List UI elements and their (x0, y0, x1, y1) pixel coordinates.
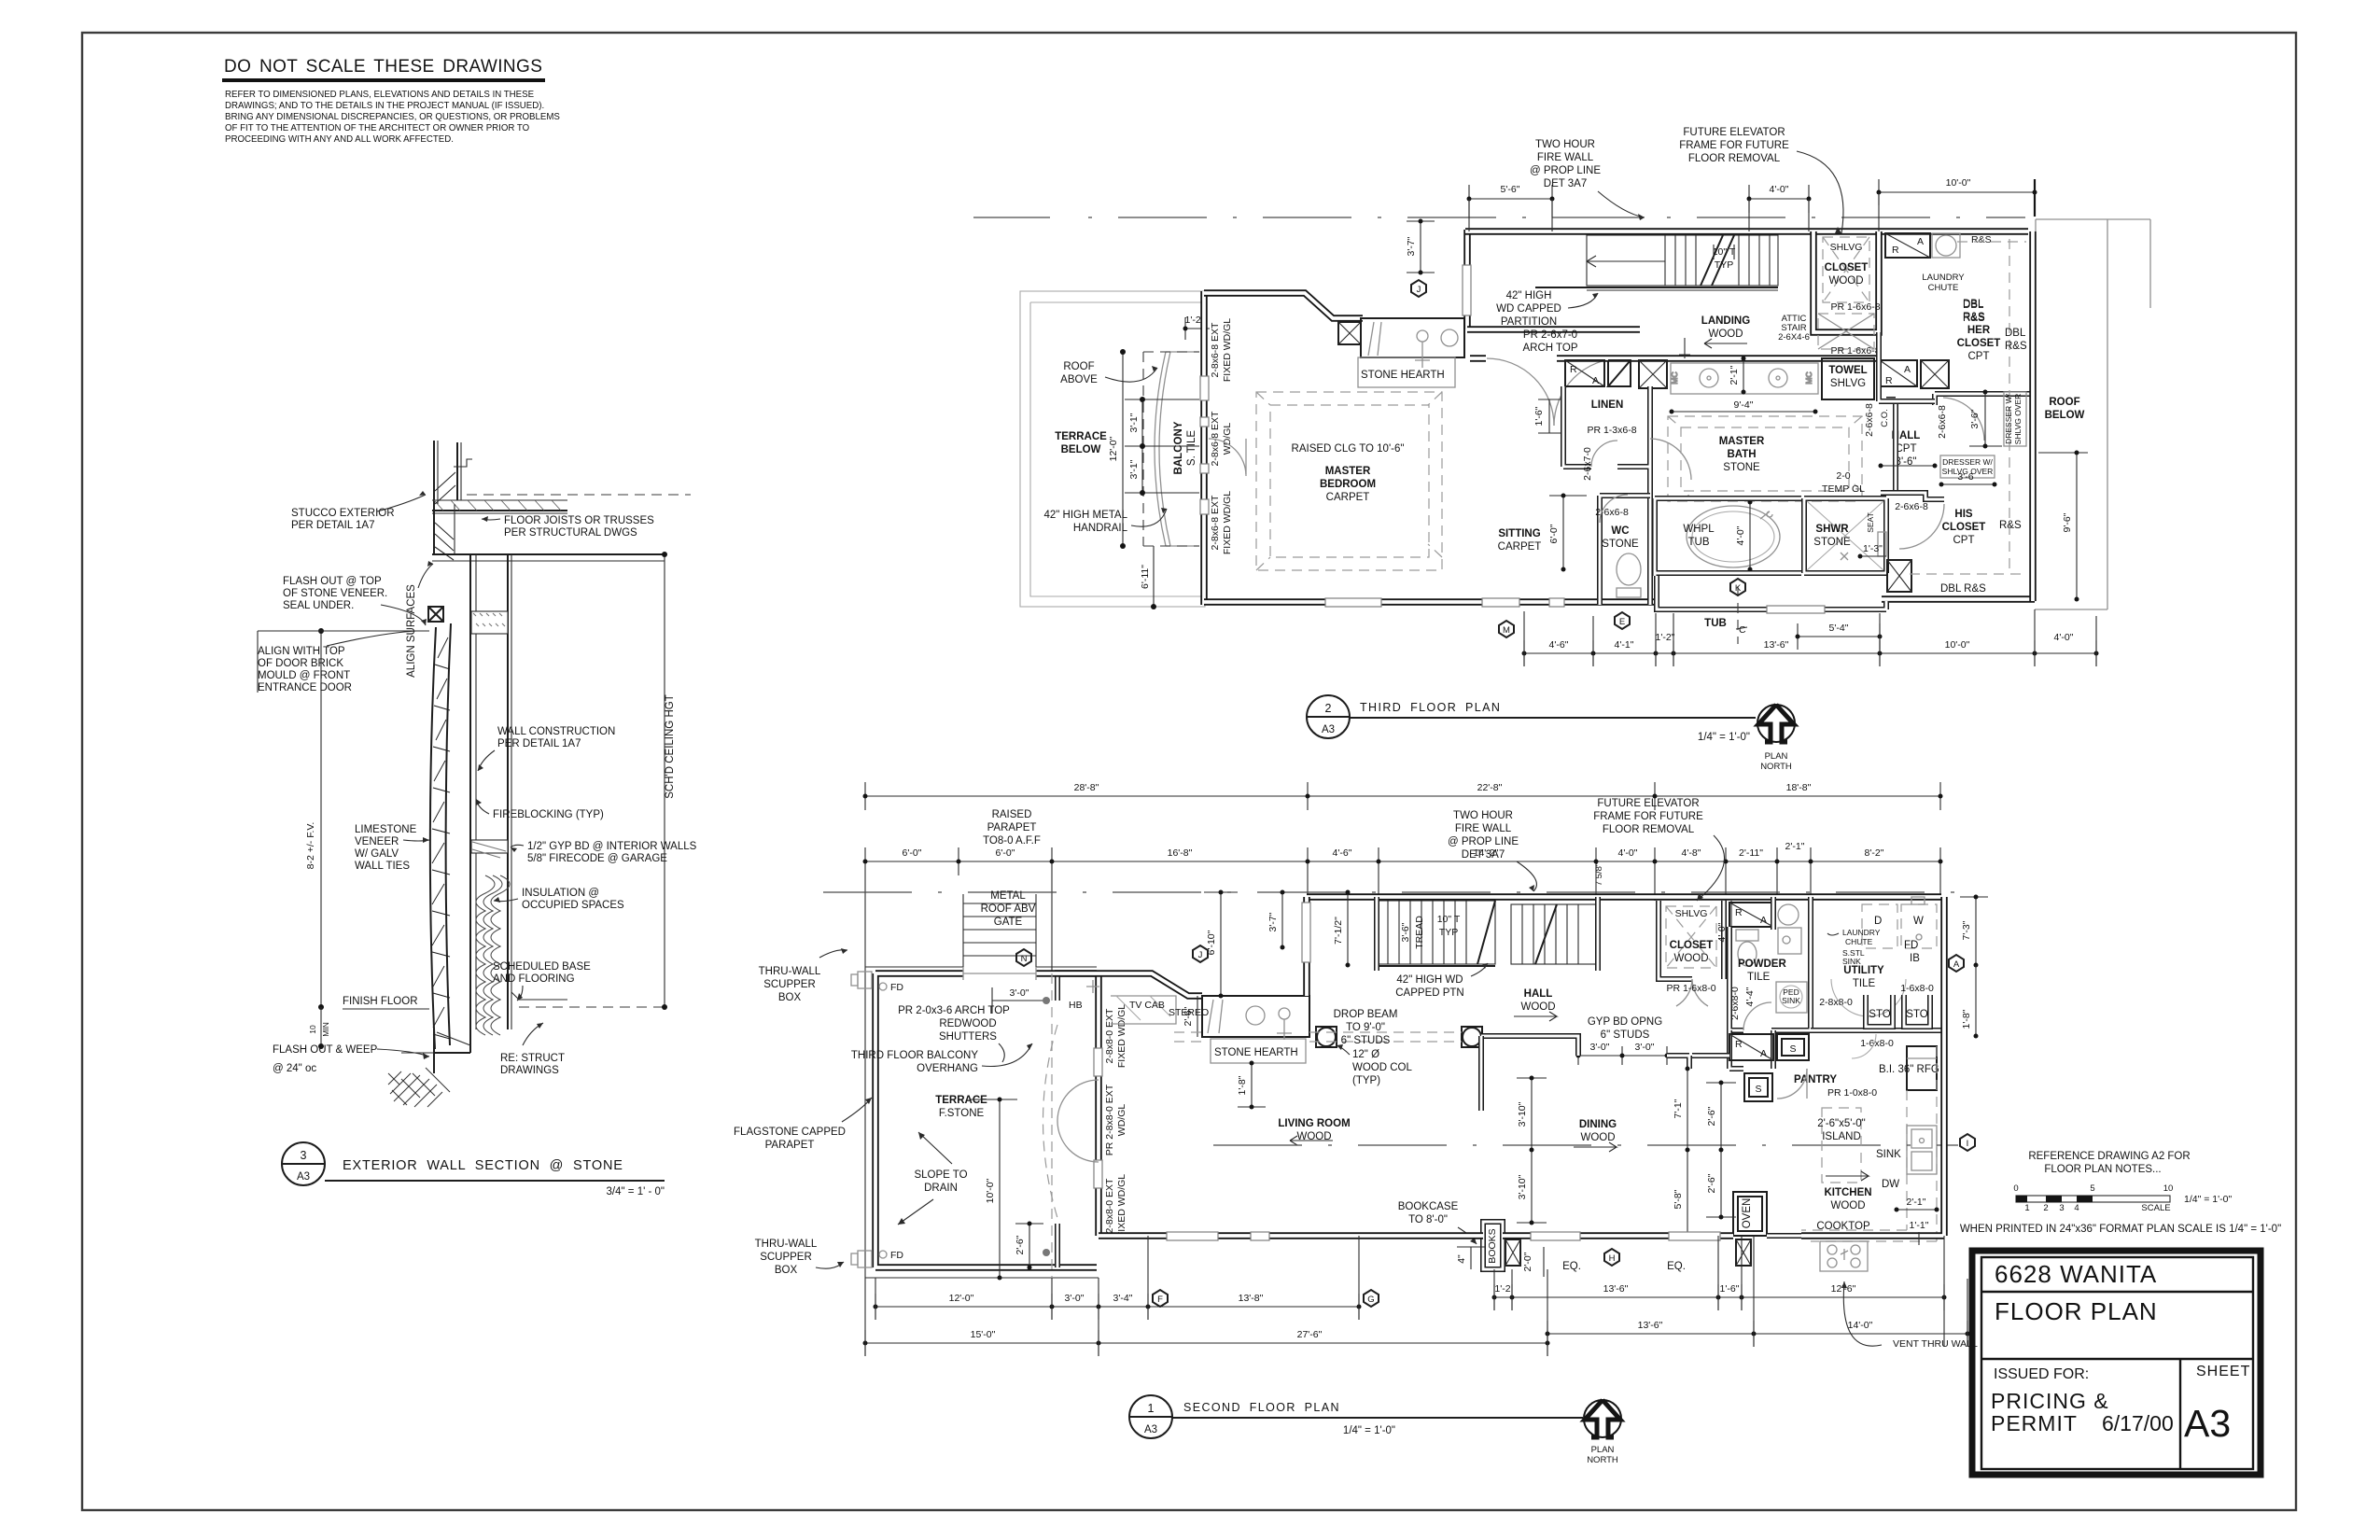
svg-text:1'-6": 1'-6" (1720, 1283, 1740, 1295)
label: terrace below (1055, 431, 1107, 455)
svg-text:SINK: SINK (1876, 1149, 1901, 1160)
section label: gyp bd (511, 841, 697, 864)
svg-text:@ PROP LINE: @ PROP LINE (1448, 836, 1519, 847)
label: landing wood (1701, 315, 1750, 348)
svg-text:J: J (1417, 285, 1421, 295)
svg-text:LIMESTONE: LIMESTONE (355, 824, 417, 835)
svg-text:BRING ANY DIMENSIONAL DISCREPA: BRING ANY DIMENSIONAL DISCREPANCIES, OR … (225, 112, 560, 122)
her closet labels (1957, 300, 2027, 362)
HB and cross symbols (1069, 980, 1099, 1011)
svg-text:18'-8": 18'-8" (1786, 782, 1812, 793)
svg-text:3'-1": 3'-1" (1128, 459, 1140, 479)
svg-text:WOOD: WOOD (1580, 1132, 1615, 1143)
svg-text:1'-3": 1'-3" (1863, 543, 1883, 554)
svg-text:DBL R&S: DBL R&S (1940, 583, 1986, 595)
svg-text:FLOOR REMOVAL: FLOOR REMOVAL (1688, 153, 1781, 164)
svg-text:22'-8": 22'-8" (1477, 782, 1503, 793)
svg-text:LAUNDRY: LAUNDRY (1842, 928, 1881, 937)
9'-6" dim roof (2038, 451, 2088, 602)
svg-text:3'-7": 3'-7" (1267, 912, 1279, 931)
island dashed (1817, 1108, 1866, 1183)
svg-text:10: 10 (2163, 1183, 2174, 1194)
chase x right (1921, 360, 1949, 388)
svg-text:10'-0": 10'-0" (1946, 177, 1971, 189)
svg-text:R: R (1885, 375, 1893, 386)
svg-text:6/17/00: 6/17/00 (2102, 1411, 2174, 1435)
section: bottom of wall / flash out (401, 1029, 470, 1073)
svg-text:8'-2": 8'-2" (1865, 847, 1884, 859)
svg-text:EQ.: EQ. (1667, 1261, 1686, 1272)
2'-1" dim at vanity (1729, 357, 1746, 395)
master bedroom north wall with diagonal (1204, 293, 1363, 318)
svg-text:FLASH OUT & WEEP: FLASH OUT & WEEP (273, 1044, 378, 1056)
grid marker A (1949, 955, 1964, 972)
svg-text:PR 1-6x6-8: PR 1-6x6-8 (1830, 301, 1880, 313)
svg-text:MASTER: MASTER (1719, 436, 1765, 447)
svg-text:PER DETAIL 1A7: PER DETAIL 1A7 (291, 520, 374, 531)
label: thru-wall scupper box (bottom) (755, 1239, 844, 1276)
section label: scheduled base (493, 961, 591, 1001)
kitchen sink + dw (1876, 1126, 1937, 1190)
svg-text:1'-2": 1'-2" (1656, 632, 1675, 643)
svg-text:A: A (1904, 364, 1911, 375)
svg-text:MOULD @ FRONT: MOULD @ FRONT (258, 670, 350, 681)
label: future elevator (1679, 127, 1843, 233)
svg-text:STONE: STONE (1813, 537, 1851, 548)
6'-11" vertical dim (1140, 546, 1156, 609)
svg-text:2'-0": 2'-0" (1522, 1252, 1533, 1271)
label: 12" wood col (1337, 1044, 1412, 1086)
top dim row 2 (863, 841, 1943, 886)
svg-text:KITCHEN: KITCHEN (1824, 1187, 1871, 1198)
svg-text:FIXED WD/GL: FIXED WD/GL (1116, 1004, 1127, 1068)
section: ground hatch (388, 1068, 450, 1107)
svg-text:SCHEDULED BASE: SCHEDULED BASE (493, 961, 591, 973)
3'-0" gate dim (992, 987, 1050, 1014)
svg-text:3'-4": 3'-4" (1113, 1293, 1133, 1304)
svg-text:PLAN: PLAN (1765, 751, 1788, 762)
bedroom south wall (1204, 598, 1659, 607)
svg-text:TERRACE: TERRACE (935, 1095, 987, 1106)
svg-text:STONE: STONE (1602, 539, 1639, 550)
svg-text:TO8-0 A.F.F: TO8-0 A.F.F (983, 835, 1041, 847)
master bedroom west wall with windows (1200, 291, 1209, 605)
svg-text:WOOD COL: WOOD COL (1352, 1062, 1412, 1073)
svg-text:THRU-WALL: THRU-WALL (755, 1239, 818, 1250)
section label: stucco exterior (291, 491, 426, 531)
svg-text:SCH'D CEILING HGT: SCH'D CEILING HGT (665, 694, 676, 798)
east exterior wall of closets (2029, 231, 2037, 601)
svg-text:S: S (1789, 1043, 1796, 1055)
interior dims dining (1517, 1067, 1736, 1239)
svg-text:THIRD FLOOR BALCONY: THIRD FLOOR BALCONY (851, 1050, 978, 1061)
svg-text:MASTER: MASTER (1325, 466, 1371, 477)
fireplace assembly (1338, 318, 1464, 368)
section: firestop blocks (471, 611, 508, 858)
svg-text:DROP BEAM: DROP BEAM (1334, 1009, 1398, 1020)
svg-text:BALCONY: BALCONY (1173, 421, 1184, 474)
svg-text:PER STRUCTURAL DWGS: PER STRUCTURAL DWGS (504, 527, 637, 539)
svg-text:MIN: MIN (321, 1022, 330, 1037)
house top wall west portion (1055, 973, 1202, 996)
svg-text:DBL: DBL (1963, 300, 1984, 311)
svg-text:2: 2 (1325, 702, 1332, 715)
svg-text:2-8x6-8 EXT: 2-8x6-8 EXT (1210, 495, 1221, 551)
svg-text:CLOSET: CLOSET (1825, 262, 1869, 273)
raised parapet label (983, 809, 1041, 847)
svg-text:CPT: CPT (1953, 535, 1975, 546)
vent thru wall (1841, 1281, 1978, 1350)
his closet bottom wall (1882, 595, 2035, 603)
svg-text:FD: FD (890, 1250, 903, 1261)
4'-0" dim at closet (1716, 901, 1731, 964)
svg-text:2-8x6-8 EXT: 2-8x6-8 EXT (1210, 322, 1221, 378)
svg-text:14'-0": 14'-0" (1848, 1320, 1873, 1331)
svg-text:3'-10": 3'-10" (1517, 1101, 1528, 1127)
svg-text:4'-1": 4'-1" (1615, 639, 1634, 651)
svg-text:7'-3": 7'-3" (1961, 920, 1972, 940)
svg-text:FRAME FOR FUTURE: FRAME FOR FUTURE (1679, 140, 1789, 151)
svg-text:AND FLOORING: AND FLOORING (493, 973, 575, 985)
svg-text:(TYP): (TYP) (1352, 1075, 1380, 1086)
wall between bath and hall (1886, 399, 1896, 496)
svg-text:W/ GALV: W/ GALV (355, 848, 399, 860)
property dashed line second floor (823, 891, 1979, 893)
svg-text:3'-0": 3'-0" (1010, 987, 1029, 999)
section label: insulation (494, 888, 624, 911)
svg-text:MC: MC (1670, 371, 1679, 384)
svg-text:1'-8": 1'-8" (1237, 1075, 1248, 1095)
svg-text:SEAL UNDER.: SEAL UNDER. (283, 600, 354, 611)
label: roof below (2045, 397, 2085, 421)
svg-text:SCUPPER: SCUPPER (763, 979, 816, 990)
svg-text:13'-6": 13'-6" (1603, 1283, 1629, 1295)
svg-text:R: R (1735, 907, 1743, 918)
svg-text:BOOKS: BOOKS (1487, 1228, 1498, 1263)
svg-text:4'-0": 4'-0" (1618, 847, 1638, 859)
svg-text:FLOOR PLAN NOTES...: FLOOR PLAN NOTES... (2044, 1164, 2161, 1175)
section: base/flooring step (511, 992, 567, 1000)
svg-text:PR 2-0x3-6 ARCH TOP: PR 2-0x3-6 ARCH TOP (898, 1005, 1010, 1016)
svg-text:2'-11": 2'-11" (1739, 847, 1763, 859)
svg-text:FIRE WALL: FIRE WALL (1455, 823, 1512, 834)
svg-text:I: I (1967, 1139, 1969, 1149)
hall width dim 3'-6" (1879, 464, 1938, 469)
svg-text:1/4" = 1'-0": 1/4" = 1'-0" (1698, 732, 1750, 743)
svg-text:TV CAB: TV CAB (1129, 1000, 1165, 1011)
svg-text:12" Ø: 12" Ø (1352, 1049, 1379, 1060)
label: pr 2-6x7-0 arch top (1522, 329, 1577, 354)
svg-text:OCCUPIED SPACES: OCCUPIED SPACES (522, 900, 624, 911)
svg-text:9'-6": 9'-6" (2062, 512, 2073, 532)
svg-text:15'-0": 15'-0" (971, 1329, 996, 1340)
svg-text:BOX: BOX (775, 1265, 798, 1276)
svg-text:DINING: DINING (1579, 1119, 1617, 1130)
label: two hour fire wall (2nd floor) (1448, 810, 1536, 891)
svg-text:WHPL: WHPL (1683, 524, 1715, 535)
svg-text:FIXED WD/GL: FIXED WD/GL (1116, 1174, 1127, 1238)
svg-text:2-6x6-8: 2-6x6-8 (1937, 405, 1948, 439)
svg-text:TYP: TYP (1439, 927, 1458, 938)
svg-text:ENTRANCE DOOR: ENTRANCE DOOR (258, 682, 352, 693)
second floor title (1129, 1395, 1583, 1438)
note title: DO NOT SCALE THESE DRAWINGS (222, 57, 545, 80)
svg-text:REFERENCE DRAWING A2 FOR: REFERENCE DRAWING A2 FOR (2028, 1151, 2190, 1162)
svg-text:CHUTE: CHUTE (1928, 283, 1959, 293)
vanity counter with two lavs (1670, 363, 1818, 394)
svg-text:FIXED WD/GL: FIXED WD/GL (1222, 318, 1233, 382)
svg-text:TWO HOUR: TWO HOUR (1453, 810, 1513, 821)
bottom dim row A: 5'-4" (1796, 623, 1883, 650)
svg-text:RE: STRUCT: RE: STRUCT (500, 1053, 565, 1064)
section label: re: struct drawings (500, 1023, 565, 1076)
svg-text:2'-6": 2'-6" (1183, 1006, 1194, 1026)
svg-text:R: R (1892, 245, 1899, 256)
terrace 12'-0" vertical dim (1108, 349, 1126, 549)
svg-text:WOOD: WOOD (1830, 1200, 1865, 1211)
his closet labels (1895, 501, 2022, 595)
svg-text:42" HIGH: 42" HIGH (1506, 290, 1552, 301)
kitchen counters dashed (1801, 1046, 1937, 1241)
svg-text:TILE: TILE (1853, 978, 1876, 989)
9'-4" dim (1670, 399, 1818, 414)
svg-text:G: G (1367, 1295, 1374, 1305)
svg-text:8-2 +/- F.V.: 8-2 +/- F.V. (305, 822, 316, 870)
property line dash-dot across top (973, 217, 2025, 218)
svg-text:4'-0": 4'-0" (2054, 632, 2074, 643)
svg-text:SLOPE TO: SLOPE TO (914, 1169, 967, 1181)
svg-text:2: 2 (2043, 1203, 2048, 1213)
note paragraph (225, 90, 560, 145)
utility room (1819, 965, 1906, 1016)
svg-text:6'-0": 6'-0" (903, 847, 922, 859)
svg-text:9'-4": 9'-4" (1734, 399, 1754, 411)
dresser w/ shlvg over boxes (1939, 392, 2027, 487)
svg-text:OVEN: OVEN (1742, 1198, 1753, 1229)
svg-text:PARAPET: PARAPET (765, 1140, 815, 1151)
1'-3" shwr dim (1858, 543, 1887, 559)
stairs second floor run2 (1511, 904, 1598, 964)
svg-text:7'-1/2": 7'-1/2" (1333, 917, 1344, 945)
svg-text:BOOKCASE: BOOKCASE (1398, 1201, 1459, 1212)
svg-text:3'-10": 3'-10" (1517, 1174, 1528, 1199)
svg-text:W: W (1913, 916, 1924, 927)
svg-text:BEDROOM: BEDROOM (1320, 479, 1376, 490)
svg-text:PR 1-0x8-0: PR 1-0x8-0 (1827, 1087, 1877, 1099)
3'-6 dim her closet door (1969, 390, 2002, 449)
svg-text:WALL TIES: WALL TIES (355, 861, 410, 872)
1'-6" dim left of linen (1533, 399, 1561, 433)
10" T TYP stair note (1713, 245, 1736, 271)
svg-text:6628 WANITA: 6628 WANITA (1995, 1260, 2157, 1288)
label: arch top redwood shutters (898, 1005, 1010, 1062)
svg-text:WD CAPPED: WD CAPPED (1496, 303, 1561, 315)
fireplace second floor (1202, 996, 1309, 1040)
svg-text:TUB: TUB (1704, 618, 1727, 629)
svg-text:1-6x8-0: 1-6x8-0 (1860, 1038, 1894, 1049)
svg-text:STO: STO (1906, 1009, 1927, 1020)
svg-text:2-6x6-8: 2-6x6-8 (1895, 501, 1928, 512)
chase box at his closet (1887, 560, 1911, 592)
elevator closet walls (1813, 231, 1879, 332)
svg-text:GYP BD OPNG: GYP BD OPNG (1588, 1016, 1662, 1028)
label: roof above (1060, 361, 1157, 385)
label: flagstone capped parapet (734, 1098, 872, 1151)
attic stair dashed (1778, 314, 1874, 349)
svg-text:SEAT: SEAT (1866, 512, 1875, 533)
grid marker N (1016, 949, 1031, 966)
svg-text:A: A (1917, 236, 1924, 247)
svg-text:CPT: CPT (1968, 351, 1990, 362)
svg-text:CARPET: CARPET (1498, 541, 1542, 553)
2'-0" and EQ labels bottom (1522, 1247, 1686, 1277)
svg-text:5'-4": 5'-4" (1829, 623, 1849, 634)
svg-text:DRAWINGS: DRAWINGS (500, 1065, 559, 1076)
label: hall wood (1514, 988, 1557, 1021)
svg-text:PR 1-6x6-8: PR 1-6x6-8 (1830, 345, 1880, 357)
top dim 4'-0" (1747, 184, 1812, 213)
top right dim 10'-0" (1877, 177, 2037, 217)
dining room label (1574, 1119, 1617, 1152)
svg-text:3'-6": 3'-6" (1400, 922, 1411, 942)
svg-text:WD/GL: WD/GL (1116, 1104, 1127, 1137)
svg-text:LANDING: LANDING (1701, 315, 1750, 327)
svg-text:TYP: TYP (1715, 259, 1733, 271)
2'-1" 1'-1" kitchen dims (1895, 1197, 1939, 1245)
svg-text:OVERHANG: OVERHANG (917, 1063, 978, 1074)
svg-text:CHUTE: CHUTE (1845, 937, 1873, 946)
section label: wall construction (478, 726, 615, 771)
svg-text:A3: A3 (1144, 1424, 1157, 1435)
svg-text:A3: A3 (1322, 724, 1335, 735)
bedroom tray ceiling dashed rectangles (1256, 392, 1442, 570)
svg-text:A: A (1760, 1048, 1767, 1059)
svg-text:A: A (1592, 375, 1599, 386)
laundry chute circle (1932, 233, 1992, 258)
svg-text:S: S (1755, 1084, 1761, 1095)
svg-text:4'-0": 4'-0" (1716, 922, 1728, 942)
svg-text:TO 8'-0": TO 8'-0" (1408, 1214, 1448, 1225)
grid marker J (1411, 280, 1426, 297)
pantry area (1729, 1030, 1877, 1101)
svg-text:0: 0 (2013, 1183, 2018, 1194)
svg-text:J: J (1198, 950, 1203, 960)
svg-text:D: D (1874, 916, 1882, 927)
svg-text:4: 4 (2074, 1203, 2079, 1213)
svg-text:CARPET: CARPET (1326, 492, 1370, 503)
svg-text:3: 3 (2059, 1203, 2064, 1213)
svg-text:DET 3A7: DET 3A7 (1462, 849, 1505, 861)
svg-text:HER: HER (1967, 325, 1991, 336)
svg-text:BATH: BATH (1727, 449, 1756, 460)
third floor title (1307, 695, 1756, 743)
top dims: 5'-6" and 3'-7" (1467, 184, 1555, 217)
balcony curve and floor (1155, 352, 1199, 546)
svg-text:STONE HEARTH: STONE HEARTH (1214, 1047, 1298, 1058)
svg-text:5'-8": 5'-8" (1673, 1189, 1684, 1209)
svg-text:FUTURE ELEVATOR: FUTURE ELEVATOR (1597, 798, 1699, 809)
svg-text:GATE: GATE (994, 917, 1023, 928)
second floor north arrow (1584, 1400, 1621, 1465)
svg-text:FLOOR JOISTS OR TRUSSES: FLOOR JOISTS OR TRUSSES (504, 515, 654, 526)
svg-text:WALL CONSTRUCTION: WALL CONSTRUCTION (497, 726, 615, 737)
svg-text:13'-6": 13'-6" (1638, 1320, 1663, 1331)
section label: floor joists (482, 515, 654, 539)
svg-text:2-6X4-6: 2-6X4-6 (1778, 332, 1810, 343)
elevator closet 2nd floor (1659, 901, 1724, 1006)
stair labels run1 (1400, 914, 1461, 949)
svg-text:PRICING &: PRICING & (1991, 1389, 2109, 1413)
svg-text:COOKTOP: COOKTOP (1816, 1221, 1870, 1232)
svg-text:WOOD: WOOD (1708, 329, 1743, 340)
south wall of living/dining (1099, 1232, 1733, 1240)
svg-text:3'-0": 3'-0" (1635, 1042, 1655, 1053)
svg-text:STONE: STONE (1723, 462, 1760, 473)
second floor north: stair block (1302, 897, 1941, 996)
tub deck walls (1655, 498, 1801, 576)
label: two hour fire wall (1530, 139, 1645, 220)
west exterior dims second floor (1193, 890, 1351, 999)
svg-text:DRAWINGS; AND TO THE DETAILS I: DRAWINGS; AND TO THE DETAILS IN THE PROJ… (225, 101, 544, 111)
svg-text:10'-0": 10'-0" (1945, 639, 1970, 651)
svg-text:HALL: HALL (1524, 988, 1553, 1000)
svg-text:WHEN PRINTED IN 24"x36" FORMAT: WHEN PRINTED IN 24"x36" FORMAT PLAN SCAL… (1960, 1224, 2281, 1235)
svg-text:WOOD: WOOD (1673, 953, 1708, 964)
svg-text:TEMP GL: TEMP GL (1822, 483, 1865, 495)
svg-text:INSULATION @: INSULATION @ (522, 888, 599, 899)
svg-text:FD: FD (890, 982, 903, 993)
tub bay bottom exterior wall (1657, 576, 1886, 609)
svg-text:SHLVG: SHLVG (1830, 378, 1866, 389)
svg-text:2'-6": 2'-6" (1706, 1173, 1717, 1193)
svg-text:BELOW: BELOW (2045, 410, 2085, 421)
label: future elevator (2nd floor) (1593, 798, 1724, 901)
svg-text:C: C (1739, 624, 1746, 636)
svg-text:PANTRY: PANTRY (1794, 1074, 1837, 1085)
balcony window dims 3'-1"/3'-1" (1125, 397, 1199, 496)
svg-text:HB: HB (1069, 1000, 1083, 1011)
b.i. rfg (1879, 1046, 1939, 1090)
svg-text:HANDRAIL: HANDRAIL (1073, 523, 1128, 534)
section title 3/A3 (282, 1142, 665, 1197)
witness extension lines row2 (865, 875, 1940, 971)
stone hearth box + label (1358, 357, 1455, 387)
svg-text:H: H (1609, 1253, 1616, 1264)
4'-0" tub dim (1735, 500, 1753, 572)
linen room (1563, 386, 1650, 605)
svg-text:FIREBLOCKING (TYP): FIREBLOCKING (TYP) (493, 809, 604, 820)
svg-text:ROOF: ROOF (2049, 397, 2079, 408)
svg-text:FIRE WALL: FIRE WALL (1537, 152, 1594, 163)
section label: flash out and weep (273, 1044, 429, 1074)
svg-text:1/4" = 1'-0": 1/4" = 1'-0" (1343, 1425, 1395, 1436)
svg-text:WOOD: WOOD (1828, 275, 1863, 287)
svg-text:VENEER: VENEER (355, 836, 399, 847)
svg-text:2'-1": 2'-1" (1729, 365, 1740, 385)
bottom dim row B of third floor (1522, 632, 2099, 666)
svg-text:TOWEL: TOWEL (1828, 365, 1867, 376)
svg-text:WC: WC (1611, 525, 1629, 537)
svg-text:ISLAND: ISLAND (1822, 1131, 1861, 1142)
roof below thin outline (2035, 219, 2150, 609)
3'-0 3'-0 dims (1576, 1042, 1670, 1065)
section: second floor line and schd ceiling box (432, 552, 667, 1029)
svg-text:PARAPET: PARAPET (987, 822, 1037, 833)
title block (1972, 1251, 2261, 1475)
svg-text:POWDER: POWDER (1738, 959, 1786, 970)
label: third floor balcony overhang (851, 1043, 1032, 1074)
svg-text:STO: STO (1869, 1009, 1890, 1020)
